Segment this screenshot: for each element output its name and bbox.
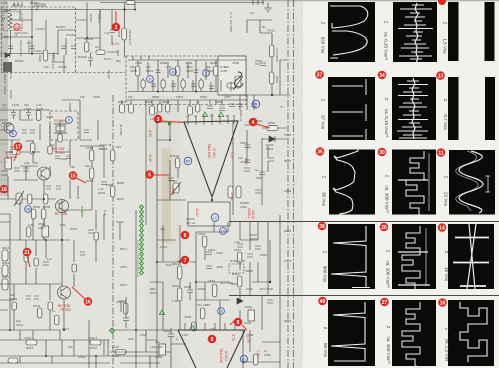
test point P — [66, 117, 73, 124]
test point A1 — [240, 355, 247, 362]
IF resistor b — [175, 66, 180, 76]
node 35 — [316, 147, 325, 156]
tiny gray component labels — [1, 1, 292, 359]
left column resistor a — [2, 250, 8, 261]
node 2 — [112, 23, 121, 32]
resistor D831 — [237, 276, 242, 287]
IF small boxes row2 d — [199, 80, 203, 88]
red wire node 16 — [72, 287, 85, 299]
tuner mid wires2 — [76, 10, 118, 57]
red wire node 15 — [76, 178, 86, 183]
resistor R815 — [269, 45, 274, 57]
svg-text:Z: Z — [444, 176, 449, 179]
green warning triangle c — [159, 310, 164, 315]
scan tint column — [148, 96, 180, 368]
diode D832 — [237, 298, 243, 304]
node 14 — [438, 223, 447, 232]
left column resistor b — [2, 265, 8, 276]
upper-left corner tick texture — [14, 2, 46, 7]
capacitor C821 — [237, 244, 243, 247]
svg-text:16: 16 — [440, 301, 446, 307]
capacitor c900b — [26, 110, 31, 119]
diode D812 — [269, 136, 275, 142]
row caps extra — [238, 104, 256, 107]
svg-text:Z: Z — [384, 21, 389, 24]
capacitor 3.9 — [30, 46, 35, 49]
left page edge band — [0, 0, 8, 196]
wires around IC left — [146, 122, 186, 200]
svg-text:920 Vss: 920 Vss — [321, 37, 326, 54]
capacitor C822 — [248, 310, 255, 321]
TBA510 pin stubs inner — [188, 121, 234, 125]
resistor D860L — [228, 186, 233, 198]
right boundary faint — [267, 222, 269, 295]
resistor r900 — [36, 111, 41, 121]
wire to R860 — [262, 127, 287, 129]
svg-text:Z: Z — [323, 327, 328, 330]
test point V8 — [0, 0, 1, 1]
resistor row a — [120, 104, 125, 113]
scope photo C3R1 (two dark bars) — [448, 2, 495, 61]
svg-text:Z: Z — [443, 99, 448, 102]
red wire node 4 — [256, 124, 270, 128]
node 34 — [378, 71, 387, 80]
node 11 — [437, 148, 446, 157]
diode D2164 — [5, 53, 10, 58]
node 7 — [181, 256, 190, 265]
svg-text:14: 14 — [439, 226, 445, 232]
svg-text:ca. 100 Vss*³: ca. 100 Vss*³ — [385, 185, 390, 213]
resistor R870L — [110, 186, 115, 197]
antenna tee — [116, 302, 126, 312]
node 16b — [438, 298, 447, 307]
scope photo C3R3 sine waves — [449, 150, 495, 215]
resistor R912 — [26, 340, 37, 345]
KTS S-curve — [234, 72, 243, 87]
resistor bottom a — [8, 358, 18, 363]
test point VB — [25, 206, 32, 213]
green warning triangle d — [189, 325, 194, 330]
scope photo C2R1 — [393, 2, 437, 63]
resistor R918 — [115, 350, 126, 355]
IF top connector row — [128, 56, 246, 60]
row boxes extra c — [196, 104, 200, 112]
scope photo C2R2 — [392, 77, 436, 140]
svg-text:13: 13 — [438, 74, 444, 80]
scope photo C2R5 — [392, 300, 436, 368]
resistor row b — [129, 104, 134, 113]
resistor 2k2 — [26, 227, 31, 237]
right of IC extra caps — [244, 146, 274, 193]
tuner inner wires — [14, 10, 76, 73]
tuner inner dashed wall — [76, 72, 127, 74]
trimmer C611 — [171, 182, 181, 195]
red wire highlights — [14, 11, 270, 330]
left column resistor c — [2, 279, 8, 290]
scan tan streak — [162, 148, 171, 243]
svg-text:ca. 0,15 Vss*³: ca. 0,15 Vss*³ — [384, 109, 389, 138]
mid-left extra density — [0, 120, 103, 199]
component row above IC wires — [122, 100, 222, 112]
bottom-left extra boxes e — [12, 302, 16, 310]
svg-text:ca. 100 Vss*³: ca. 100 Vss*³ — [386, 260, 391, 288]
node 30 — [378, 148, 387, 157]
capacitor C816 — [255, 63, 266, 66]
node 9 — [208, 335, 217, 344]
svg-text:Z: Z — [444, 251, 449, 254]
test point M — [170, 69, 177, 76]
left supply bus — [0, 9, 135, 11]
svg-text:Z: Z — [384, 98, 389, 101]
transistor T903 — [58, 286, 71, 299]
tuner wires — [0, 0, 58, 55]
resistor row c — [150, 106, 155, 115]
svg-text:37 Vss: 37 Vss — [321, 115, 326, 130]
resistor tuner mid — [84, 42, 89, 52]
capacitor row a — [207, 106, 213, 109]
row boxes extra a — [158, 104, 162, 112]
capacitor c907 — [101, 182, 107, 185]
resistor P912 — [90, 340, 101, 345]
module boundary dash-dot left — [112, 95, 114, 368]
schematic red test point circles — [0, 23, 257, 344]
svg-text:15 Vss: 15 Vss — [444, 267, 449, 282]
svg-text:Z: Z — [385, 175, 390, 178]
resistor R904 — [30, 143, 35, 154]
red value texts — [5, 42, 260, 364]
test point X — [203, 70, 210, 77]
green marks — [80, 29, 275, 340]
capacitor C823 — [187, 282, 193, 301]
svg-text:37: 37 — [317, 73, 323, 79]
IF small boxes row2 a — [141, 80, 145, 88]
resistor C869 — [200, 308, 205, 319]
resistor R824 — [177, 288, 182, 301]
resistor D815 — [269, 72, 274, 84]
IF caps row2 — [151, 84, 214, 89]
wire right of TAA — [243, 330, 280, 368]
svg-text:300 Vss: 300 Vss — [323, 266, 328, 283]
svg-text:Z: Z — [445, 328, 450, 331]
tuner mid caps — [61, 30, 115, 49]
svg-text:ca. 0,15 Vss*²: ca. 0,15 Vss*² — [384, 32, 389, 61]
bottom-left extra boxes a — [24, 254, 28, 262]
capacitor 180p — [8, 46, 13, 49]
capacitor L907 — [168, 328, 174, 345]
junction node dot — [269, 281, 271, 283]
resistor bottom right — [253, 354, 258, 365]
node 15 — [69, 171, 78, 180]
scope photo C1R1 — [328, 2, 375, 62]
node 26 — [380, 223, 389, 232]
separator line mid (y=221.5) — [229, 221, 499, 223]
IF resistor c — [213, 66, 218, 76]
node 21 — [23, 248, 32, 257]
long vertical x146 — [145, 112, 147, 225]
wire h282 — [110, 282, 230, 330]
TAA630 pin stubs — [185, 323, 235, 330]
capacitor C906 — [5, 158, 12, 169]
resistor R821 — [237, 252, 242, 263]
svg-text:1,5 Vss: 1,5 Vss — [443, 38, 448, 54]
test point BP — [184, 157, 192, 165]
IF small boxes row2 c — [181, 80, 185, 88]
resistor R833 — [192, 322, 197, 331]
top bus wire — [100, 2, 264, 4]
scope photo C3R5 staircase — [448, 300, 494, 366]
node 37 — [315, 70, 324, 79]
separator line low (y=295.5) — [229, 295, 499, 297]
red wire node 3 to IC — [161, 121, 184, 123]
bottom-left extra boxes f — [48, 302, 52, 310]
capacitor C908 — [159, 344, 166, 355]
resistor C900 — [89, 150, 94, 161]
IF capacitor a — [156, 70, 161, 73]
svg-text:Z: Z — [321, 22, 326, 25]
resistor 3k3 R860 — [267, 126, 278, 131]
mid-left caps extra — [55, 130, 89, 159]
node 3 — [154, 115, 163, 124]
KTS inner resistor — [227, 83, 237, 88]
long vertical x136 — [135, 210, 137, 368]
transistor T900 — [4, 123, 14, 133]
top scan edge line — [0, 0, 499, 2]
resistor R907 — [27, 194, 32, 204]
IF resistor a — [135, 66, 140, 76]
scan grain overlay — [0, 0, 303, 368]
right mid caps — [247, 246, 273, 303]
node 4 — [249, 118, 258, 127]
svg-text:ca. 100 Vss*³: ca. 100 Vss*³ — [386, 336, 391, 364]
scope labels column 2 — [384, 21, 392, 365]
resistor R869L — [110, 150, 115, 161]
scope labels column 1 — [321, 22, 329, 358]
wire h232 — [196, 232, 228, 260]
scope photo C1R3 — [329, 148, 375, 215]
green diamond bottom — [110, 328, 115, 333]
transistor T902 — [56, 200, 69, 213]
right column TP wire — [222, 33, 290, 95]
mid-left extra wires — [0, 100, 92, 180]
resistor R611 — [175, 158, 180, 168]
coil L823 — [212, 284, 217, 297]
svg-text:Z: Z — [386, 250, 391, 253]
variable resistor R905 — [14, 191, 24, 206]
svg-text:35: 35 — [317, 150, 323, 156]
resistor R908 — [41, 209, 46, 219]
svg-text:Z: Z — [322, 176, 327, 179]
TBA510 pin stubs — [188, 113, 234, 122]
bottom-left extra boxes c — [72, 264, 76, 272]
resistor tuner mid2 — [96, 50, 105, 55]
resistor on top bus — [126, 1, 135, 5]
wire top junction — [125, 3, 136, 29]
node 6 — [181, 231, 190, 240]
schematic paper area — [0, 0, 303, 368]
red wire node 7 — [177, 260, 181, 262]
capacitor C911 — [42, 226, 49, 237]
lower mid extra — [150, 222, 228, 330]
component row above IC extra — [126, 95, 254, 110]
green arrow at IC input — [168, 122, 172, 126]
resistor R909 — [43, 194, 48, 204]
left mid bus — [0, 110, 50, 140]
op-amp U2 TAA630 trapezoid — [178, 330, 245, 368]
scope photo C3R2 (two dark bars) — [448, 77, 495, 140]
test point B — [10, 130, 17, 137]
tuner dashed enclosure — [2, 7, 76, 73]
coupling ticks top — [253, 0, 263, 5]
resistor C86L — [236, 186, 241, 198]
wire below R377 — [124, 40, 126, 57]
wire bottom left h352 — [110, 344, 171, 352]
left band hatch — [0, 18, 8, 180]
green tick strip — [140, 205, 144, 275]
test point L2 — [211, 214, 219, 222]
transistor T901 — [38, 167, 51, 180]
svg-text:40: 40 — [320, 299, 326, 305]
green warning triangle b — [218, 112, 223, 117]
red wire node 17 — [14, 150, 18, 161]
scope photo C2R4 — [392, 224, 436, 293]
node 27 — [380, 298, 389, 307]
svg-text:11: 11 — [438, 151, 444, 157]
long vertical x157 — [156, 112, 158, 368]
svg-text:35 Vss: 35 Vss — [322, 192, 327, 207]
node 13 — [436, 71, 445, 80]
red wire node 8 — [230, 321, 247, 330]
right area boundary solid — [279, 215, 281, 368]
capacitor C812 — [245, 145, 251, 148]
resistor R910 — [37, 308, 42, 318]
wires mid-left — [0, 140, 70, 258]
row boxes extra b — [166, 104, 170, 112]
capacitor row b — [219, 108, 225, 111]
svg-text:Z: Z — [443, 22, 448, 25]
crystal Q901 — [54, 124, 67, 133]
red wire node 21 — [27, 256, 30, 267]
node 40 — [318, 297, 327, 306]
mid-left box g — [58, 134, 62, 142]
node 1 tuner — [14, 24, 20, 30]
scope photo C2R3 — [392, 150, 436, 219]
node 5 — [145, 170, 154, 179]
KTS box — [218, 56, 246, 95]
IF strip bottom bus — [128, 91, 244, 93]
node 39 — [318, 222, 327, 231]
mid-left box h — [48, 146, 52, 154]
node 16 — [84, 297, 93, 306]
test point L6 — [218, 308, 225, 315]
right boundary dash-dot 2 — [293, 0, 295, 368]
svg-text:Z: Z — [386, 326, 391, 329]
svg-text:27: 27 — [382, 300, 388, 306]
scope photo C1R5 — [328, 300, 375, 366]
tuner mid wires — [76, 3, 100, 51]
node 8 — [234, 318, 243, 327]
lower-middle verticals — [116, 222, 196, 330]
IF strip legs — [138, 60, 236, 92]
capacitor C910 — [123, 297, 129, 329]
bottom-left extra boxes d — [94, 232, 98, 240]
module box below IC — [188, 202, 230, 226]
IF module dashed enclosure — [126, 56, 246, 105]
dashed box Mod — [229, 264, 244, 273]
right mid extra verticals — [240, 222, 280, 352]
capacitor C813 — [245, 160, 251, 163]
trimmer R816 — [233, 76, 243, 90]
capacitor row c — [229, 104, 235, 107]
capacitor tuner mid — [88, 52, 93, 67]
test point D — [147, 76, 154, 83]
test point PK — [252, 100, 260, 108]
resistor R902 — [10, 150, 20, 155]
resistor zigzag L — [8, 13, 12, 29]
mixer block dark — [3, 62, 12, 72]
IF capacitor c — [234, 70, 239, 73]
IF small boxes row2 b — [161, 80, 165, 88]
capacitor C610 — [168, 178, 174, 181]
svg-text:55 Vss: 55 Vss — [323, 343, 328, 358]
scope test point number circles — [315, 0, 447, 307]
capacitor c900a — [11, 110, 16, 119]
scope photo C3R4 crossing lines — [448, 224, 494, 289]
resistor R911 — [123, 303, 128, 314]
right top extra — [247, 20, 287, 95]
resistor row d — [188, 106, 193, 115]
node 17 — [14, 142, 23, 151]
bottom mid extra — [146, 330, 186, 368]
red wire at node 2 — [115, 11, 117, 24]
svg-text:34: 34 — [379, 73, 385, 79]
capacitor C909 — [43, 262, 49, 265]
IF strip second row legs — [143, 78, 231, 92]
svg-text:26: 26 — [381, 225, 387, 231]
op-amp U1 TBA510 triangle — [184, 121, 238, 197]
capacitor C820 — [206, 266, 212, 269]
capacitor C817 — [259, 172, 265, 175]
svg-text:Z: Z — [323, 251, 328, 254]
scope labels column 3 — [443, 22, 450, 362]
resistor R913 — [54, 315, 59, 325]
svg-text:30: 30 — [379, 150, 385, 156]
scope photo C1R4 — [328, 224, 375, 289]
green warning triangle a — [202, 112, 207, 117]
right boundary dash-dot 1 — [287, 0, 289, 368]
bottom-left wires — [0, 199, 160, 368]
right mid components wires — [239, 222, 241, 318]
capacitor C819 — [206, 252, 212, 255]
bottom-left extra boxes b — [34, 258, 38, 266]
resistor R903 — [89, 168, 94, 179]
resistor R906 — [31, 209, 36, 219]
scope photo C1R2 — [328, 77, 375, 140]
wire diode — [262, 138, 287, 140]
resistor R377 — [122, 28, 127, 40]
resistor C818 — [202, 236, 207, 247]
svg-text:Z: Z — [321, 99, 326, 102]
crystal dashed box — [50, 111, 78, 140]
right of mid-left wires — [62, 100, 104, 210]
blue test point circles — [10, 69, 260, 363]
bottom-left extra density wires — [0, 210, 108, 368]
resistor R2163 — [43, 50, 48, 61]
svg-text:39: 39 — [319, 224, 325, 230]
red wire node 5 — [153, 174, 168, 176]
svg-text:ca. 2,5 Vss: ca. 2,5 Vss — [445, 339, 450, 362]
ground symbol top — [264, 3, 272, 13]
node 18 — [0, 185, 8, 194]
